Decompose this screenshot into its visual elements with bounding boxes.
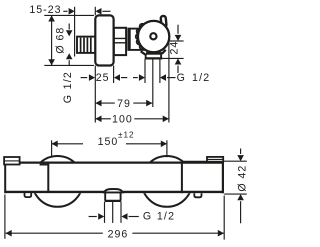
svg-text:15-23: 15-23 [29, 4, 61, 16]
svg-text:100: 100 [112, 114, 133, 126]
svg-text:79: 79 [117, 98, 131, 110]
svg-text:25: 25 [96, 72, 110, 84]
svg-text:Ø 42: Ø 42 [236, 165, 247, 192]
svg-text:G1/2: G1/2 [62, 71, 74, 103]
svg-text:296: 296 [108, 228, 129, 240]
svg-text:±12: ±12 [118, 131, 135, 140]
svg-text:24: 24 [169, 41, 181, 55]
svg-text:G1/2: G1/2 [143, 211, 175, 223]
svg-text:150: 150 [98, 136, 119, 148]
svg-text:Ø 68: Ø 68 [55, 27, 67, 54]
svg-text:G1/2: G1/2 [177, 72, 211, 84]
